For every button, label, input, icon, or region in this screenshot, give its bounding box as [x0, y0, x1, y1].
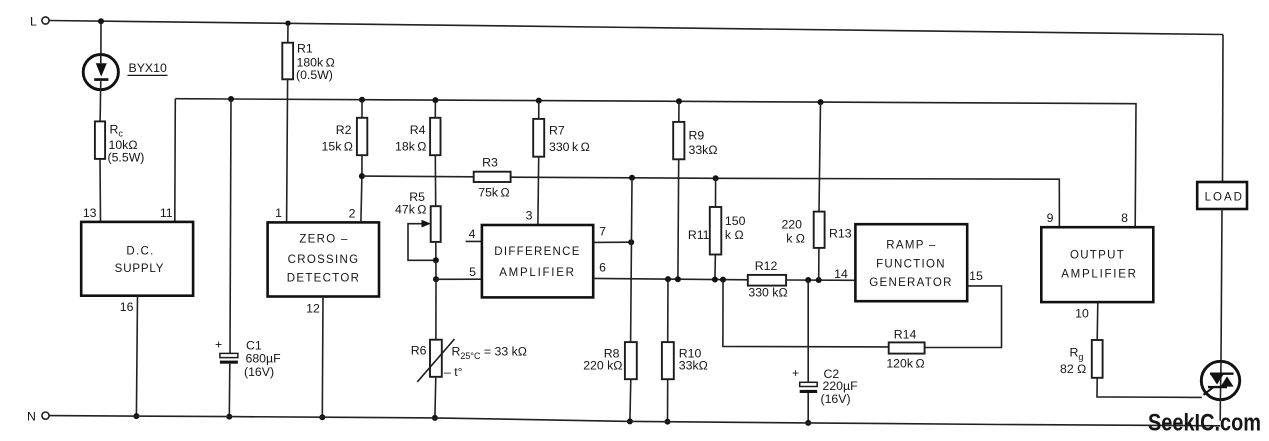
node R10-pin6 junction	[665, 276, 671, 282]
svg-text:33kΩ: 33kΩ	[679, 359, 708, 373]
node pin5 junction	[433, 276, 439, 282]
R5 wiper arrow	[422, 220, 431, 228]
wire right vertical to LOAD	[1222, 35, 1225, 183]
wire R8 vertical	[631, 178, 632, 342]
svg-text:15: 15	[969, 269, 983, 283]
svg-text:R12: R12	[755, 259, 778, 273]
svg-text:R13: R13	[829, 227, 852, 241]
label R4 value	[395, 123, 426, 154]
svg-text:AMPLIFIER: AMPLIFIER	[499, 267, 575, 279]
wire Rc to pin13	[99, 159, 102, 222]
node bus-R7	[536, 98, 542, 104]
svg-text:SeekIC.com: SeekIC.com	[1148, 410, 1261, 437]
wire C2 to N	[807, 393, 809, 423]
wire node to R6	[435, 279, 437, 339]
resistor R10	[662, 342, 674, 379]
svg-text:11: 11	[160, 206, 173, 220]
wire R8 to N	[629, 379, 632, 421]
wire R14 to pin6 node	[723, 280, 889, 347]
svg-text:1: 1	[275, 206, 282, 220]
svg-text:FUNCTION: FUNCTION	[876, 259, 946, 271]
svg-text:CROSSING: CROSSING	[288, 254, 360, 266]
svg-text:220µF: 220µF	[823, 379, 859, 393]
label R1 value	[296, 42, 335, 83]
svg-text:680µF: 680µF	[246, 352, 282, 366]
svg-text:R11: R11	[688, 228, 710, 242]
svg-text:RAMP –: RAMP –	[886, 240, 936, 252]
resistor R12	[748, 275, 786, 286]
svg-text:330 kΩ: 330 kΩ	[748, 286, 787, 300]
wire R7 to pin3	[537, 157, 540, 225]
wire R1 to pin1	[287, 79, 288, 222]
svg-text:220: 220	[781, 218, 802, 232]
wire R2 bottom	[361, 155, 363, 176]
triac Q1	[1201, 361, 1239, 399]
capacitor C1	[215, 338, 238, 364]
wire R9 top	[678, 101, 680, 122]
resistor R11	[710, 207, 722, 255]
wire R10 vertical	[667, 279, 669, 342]
label BYX10	[128, 61, 168, 76]
label R3 value	[478, 156, 509, 200]
node pin7-R8 junction	[628, 239, 634, 245]
node junction L-R1	[285, 21, 290, 26]
resistor Rg	[1092, 340, 1103, 378]
svg-text:R1: R1	[297, 42, 313, 56]
node junction L-diode	[98, 18, 104, 24]
wire pin11 to supply bus	[174, 99, 177, 222]
svg-text:(16V): (16V)	[821, 392, 851, 406]
box U4 RAMP-FUNCTION GENERATOR	[855, 224, 967, 301]
wire bus177 left to R3	[362, 175, 474, 178]
svg-text:8: 8	[1121, 211, 1128, 225]
node bus-R2	[359, 97, 365, 103]
svg-text:220 kΩ: 220 kΩ	[583, 359, 622, 373]
wire R1 top	[287, 23, 289, 43]
node R2-R3-pin2 junction	[359, 173, 365, 179]
svg-text:SUPPLY: SUPPLY	[115, 263, 165, 275]
wire pin2 to node	[361, 176, 362, 222]
svg-text:7: 7	[599, 225, 606, 239]
wire C2 branch	[807, 280, 809, 382]
svg-text:C1: C1	[246, 339, 262, 353]
wire R12 to pin14	[786, 279, 855, 281]
svg-text:+: +	[215, 338, 222, 352]
wire diode to Rc	[99, 90, 102, 122]
svg-text:k Ω: k Ω	[786, 232, 805, 246]
svg-text:5: 5	[469, 265, 476, 279]
pin 4 stub	[466, 240, 482, 242]
wire pin10 to Rg	[1096, 302, 1099, 340]
svg-text:13: 13	[83, 206, 97, 220]
wire C1 branch	[230, 99, 231, 353]
wire diode branch	[100, 21, 102, 54]
svg-text:R7: R7	[549, 124, 565, 138]
wire R5 wiper hook	[408, 224, 436, 261]
wire R6 to N	[434, 377, 437, 418]
resistor R13	[814, 212, 825, 248]
label R7 value	[549, 124, 590, 155]
wire R10 to N	[667, 379, 669, 421]
svg-text:– t°: – t°	[444, 365, 463, 379]
resistor R2	[357, 118, 367, 155]
svg-text:R9: R9	[689, 129, 705, 143]
node R11-pin6 junction	[712, 277, 718, 283]
svg-text:R14: R14	[894, 328, 917, 342]
diode D1 BYX10	[83, 55, 118, 90]
svg-text:GENERATOR: GENERATOR	[869, 277, 952, 289]
svg-text:(5.5W): (5.5W)	[108, 151, 145, 165]
svg-text:47k Ω: 47k Ω	[395, 203, 426, 217]
box U3 DIFFERENCE AMPLIFIER	[482, 225, 593, 297]
node R10-N junction	[665, 419, 671, 425]
node pin16-N junction	[133, 413, 139, 419]
box LOAD	[1197, 182, 1247, 209]
wire C1 to N	[228, 364, 231, 417]
svg-text:18k Ω: 18k Ω	[395, 140, 426, 154]
node C2-N junction	[805, 420, 811, 426]
wire pin16 to N	[136, 296, 137, 416]
node bus-R4	[432, 97, 438, 103]
wire pin6 line to R12	[593, 278, 748, 279]
wire bus177 right of R3 to pin9	[511, 177, 1060, 227]
wire pin7	[593, 241, 631, 243]
terminal L	[30, 15, 49, 29]
svg-text:AMPLIFIER: AMPLIFIER	[1061, 269, 1137, 281]
resistor R9	[673, 122, 684, 159]
label R9 value	[689, 129, 718, 158]
box U1 D.C. SUPPLY	[81, 222, 193, 296]
svg-text:330 k Ω: 330 k Ω	[549, 140, 590, 154]
svg-text:82 Ω: 82 Ω	[1060, 362, 1086, 376]
resistor R4	[430, 118, 440, 155]
label R8 value	[583, 347, 622, 373]
label R13 value	[781, 218, 851, 246]
svg-text:R6: R6	[411, 344, 427, 358]
resistor R3	[474, 172, 511, 182]
svg-text:OUTPUT: OUTPUT	[1070, 250, 1125, 262]
box U2 ZERO-CROSSING DETECTOR	[268, 222, 379, 296]
svg-text:2: 2	[349, 207, 356, 221]
label R6 value	[411, 344, 527, 380]
svg-text:120k Ω: 120k Ω	[886, 357, 924, 371]
svg-text:4: 4	[469, 227, 476, 241]
wire R7 top	[538, 101, 540, 119]
svg-text:(0.5W): (0.5W)	[296, 68, 333, 82]
capacitor C2	[792, 366, 817, 393]
svg-text:6: 6	[599, 261, 606, 275]
node bus-C1	[228, 96, 234, 102]
svg-text:BYX10: BYX10	[129, 61, 167, 75]
svg-text:R4: R4	[410, 123, 426, 137]
label C2 value	[821, 367, 859, 406]
svg-text:10: 10	[1075, 307, 1089, 321]
node bus177-R8	[629, 175, 635, 181]
label C1 value	[244, 339, 281, 380]
label Rg value	[1060, 346, 1086, 377]
node R9-pin6 junction	[675, 276, 681, 282]
wire R11 bottom	[714, 255, 717, 280]
wire triac to N	[1219, 400, 1221, 421]
svg-text:k Ω: k Ω	[725, 228, 744, 242]
node R14hook-pin6 junction	[720, 277, 726, 283]
node R6-N junction	[432, 415, 438, 421]
wire node to pin5 node	[435, 260, 437, 279]
terminal N	[27, 410, 49, 424]
label Rc value	[108, 123, 145, 165]
node C2-pin14 junction	[805, 277, 811, 283]
label R5 value	[395, 190, 426, 217]
svg-text:16: 16	[120, 300, 134, 314]
thermistor R6	[417, 339, 454, 382]
label R11 value	[688, 214, 746, 242]
wire R11 top	[715, 178, 717, 207]
wire Rg to triac gate	[1097, 378, 1202, 398]
wire supply bus y100	[175, 99, 1136, 228]
node R5-wiper junction	[433, 257, 439, 263]
svg-text:L: L	[30, 15, 37, 29]
svg-text:R3: R3	[482, 156, 498, 170]
resistor R8	[625, 342, 637, 379]
svg-text:DIFFERENCE: DIFFERENCE	[494, 246, 580, 258]
box U5 OUTPUT AMPLIFIER	[1041, 227, 1153, 302]
svg-text:(16V): (16V)	[244, 365, 274, 379]
node bus-R9	[676, 98, 682, 104]
node R8-N junction	[627, 418, 633, 424]
wire R13 top	[819, 102, 821, 212]
wire R5 bottom	[435, 242, 437, 260]
wire bottom N line	[49, 416, 1220, 426]
wire R4 bottom to R5 top	[434, 155, 436, 206]
node R13-pin14 junction	[816, 277, 822, 283]
svg-text:14: 14	[834, 267, 848, 281]
svg-text:LOAD: LOAD	[1205, 192, 1244, 204]
wire R2 top	[361, 100, 363, 118]
svg-text:75k Ω: 75k Ω	[478, 186, 509, 200]
resistor R1	[282, 43, 293, 80]
svg-text:12: 12	[306, 302, 320, 316]
svg-text:150: 150	[725, 214, 746, 228]
label R10 value	[679, 347, 708, 373]
wire R4 top	[434, 100, 436, 118]
wire pin15 elbow	[925, 286, 1002, 348]
svg-text:DETECTOR: DETECTOR	[287, 273, 360, 285]
svg-text:ZERO –: ZERO –	[299, 234, 348, 246]
svg-text:D.C.: D.C.	[126, 246, 154, 258]
svg-text:3: 3	[526, 209, 533, 223]
node bus-R13	[818, 99, 824, 105]
svg-text:N: N	[27, 410, 36, 424]
resistor Rc	[95, 121, 105, 158]
resistor R7	[533, 119, 544, 157]
label R2 value	[322, 123, 353, 154]
wire pin5	[436, 278, 482, 280]
label R12 value	[748, 259, 787, 300]
wire pin12 to N	[321, 297, 324, 418]
wire LOAD to triac	[1221, 209, 1222, 361]
node bus177-R11	[713, 175, 719, 181]
svg-text:9: 9	[1047, 211, 1054, 225]
resistor R14	[889, 342, 925, 353]
label R14 value	[886, 328, 924, 371]
wire top L line	[49, 21, 1223, 35]
svg-text:+: +	[792, 366, 799, 380]
node C1-N junction	[226, 414, 232, 420]
node pin12-N junction	[319, 414, 325, 420]
wire R13 bottom	[818, 248, 820, 280]
svg-text:33kΩ: 33kΩ	[689, 143, 718, 157]
svg-text:15k Ω: 15k Ω	[322, 140, 353, 154]
svg-text:R2: R2	[336, 123, 352, 137]
wire R9 bottom to pin6 line	[677, 159, 680, 279]
resistor R5 potentiometer	[431, 206, 441, 242]
